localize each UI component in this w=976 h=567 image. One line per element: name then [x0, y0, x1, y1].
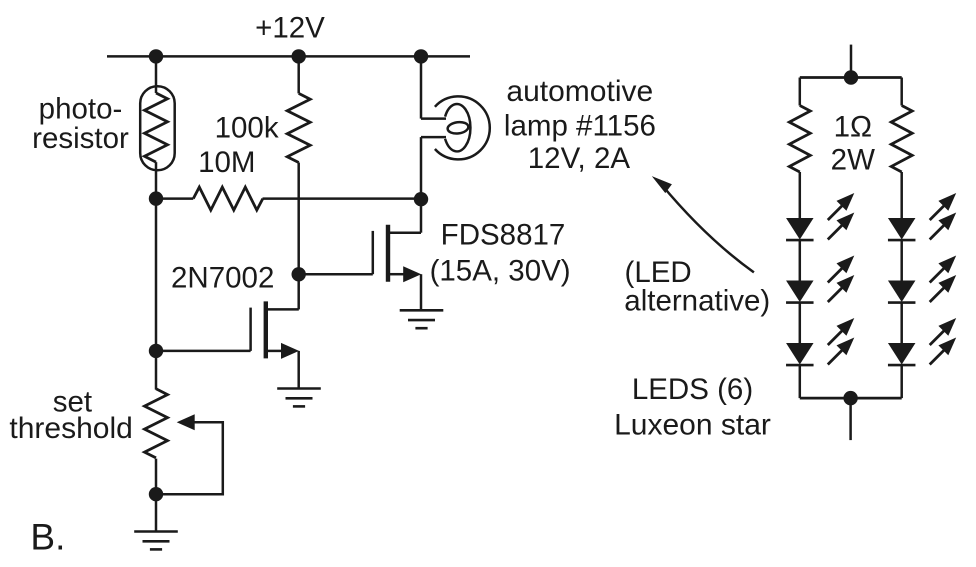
svg-text:B.: B.: [30, 517, 65, 558]
svg-text:LEDS (6): LEDS (6): [632, 373, 753, 406]
svg-text:threshold: threshold: [9, 412, 132, 445]
svg-text:lamp #1156: lamp #1156: [504, 109, 656, 142]
svg-text:FDS8817: FDS8817: [441, 219, 566, 252]
svg-text:2W: 2W: [831, 144, 875, 177]
svg-text:10M: 10M: [198, 146, 255, 179]
svg-text:automotive: automotive: [506, 75, 653, 108]
svg-text:photo-: photo-: [39, 93, 123, 126]
svg-text:+12V: +12V: [255, 12, 325, 45]
svg-text:(15A, 30V): (15A, 30V): [430, 254, 571, 287]
svg-text:12V, 2A: 12V, 2A: [528, 142, 631, 175]
svg-text:Luxeon star: Luxeon star: [614, 408, 771, 441]
svg-text:resistor: resistor: [32, 122, 129, 155]
svg-text:100k: 100k: [215, 112, 279, 145]
svg-text:1Ω: 1Ω: [834, 111, 872, 144]
svg-text:alternative): alternative): [624, 284, 770, 317]
svg-text:2N7002: 2N7002: [171, 262, 274, 295]
